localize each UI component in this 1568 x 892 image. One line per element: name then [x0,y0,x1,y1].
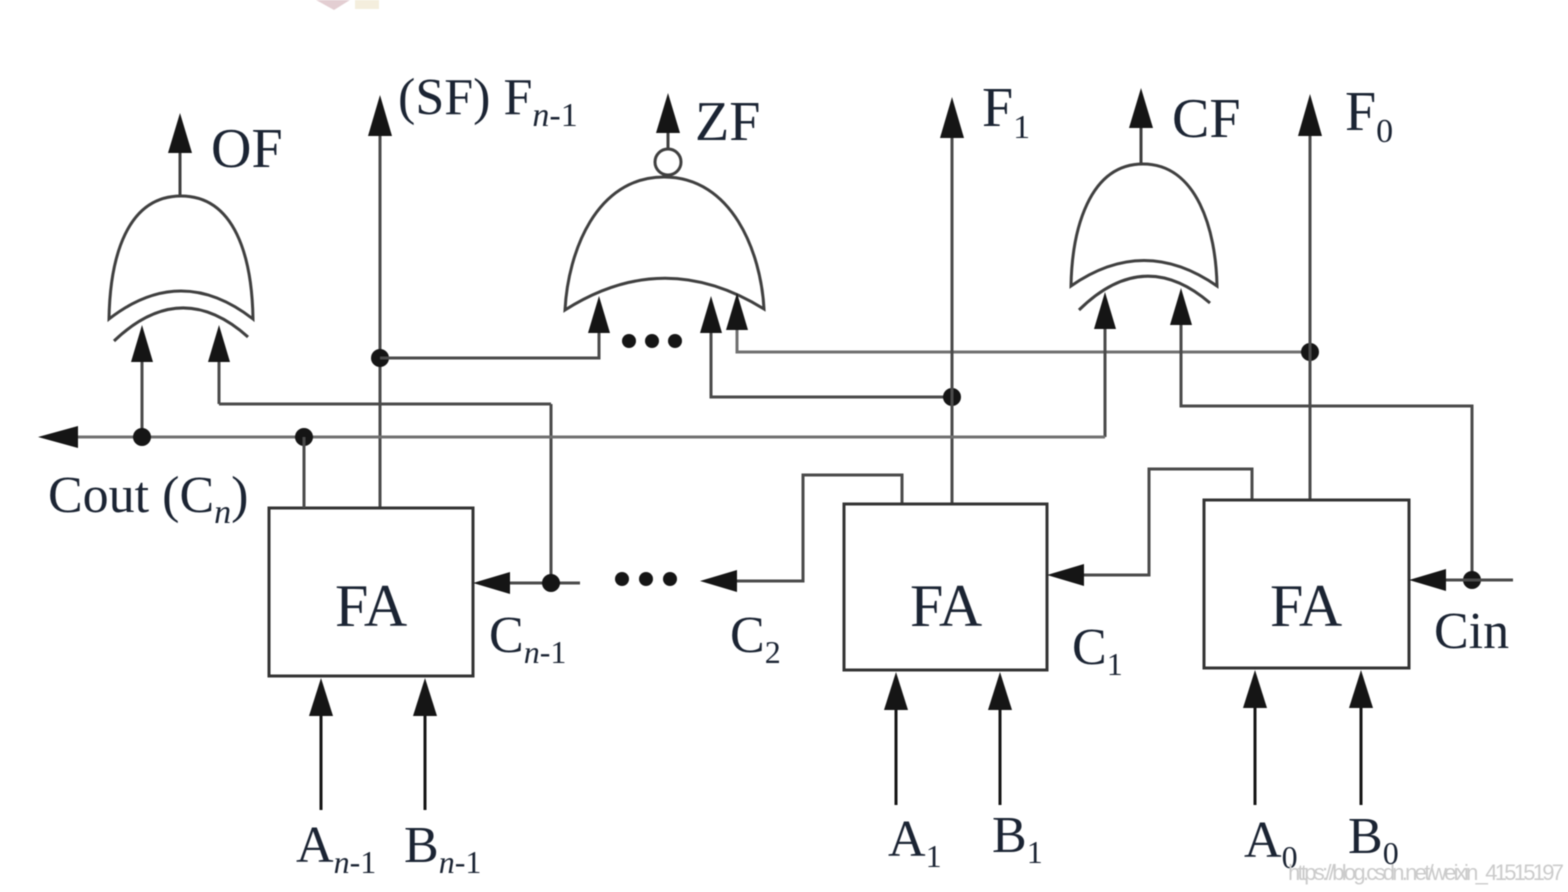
arrowhead CF output [1129,88,1153,128]
svg-text:C2: C2 [730,607,781,670]
wire CF output [1140,125,1143,164]
svg-text:Cin: Cin [1434,603,1509,660]
wire F0 sum output [1309,135,1312,500]
Cout (C_n) bus wire [52,436,1105,439]
junction dot on SF line [371,349,389,367]
wire OF left input from Cout bus [141,352,144,437]
wire carry C1 from FA3 into FA2 [1079,469,1252,575]
svg-text:F0: F0 [1345,81,1393,150]
wire input B1 [999,695,1002,805]
arrowhead ZF output [656,93,680,133]
arrowhead input B1 [988,672,1012,710]
arrowhead SF output [368,95,392,136]
wire ZF output [667,130,670,149]
arrowhead ZF right input [726,293,748,330]
svg-text:A1: A1 [888,811,942,874]
arrowhead input B_n-1 [413,678,437,716]
wire CF right input from Cin [1181,322,1472,580]
wire OF output [179,150,182,196]
arrowhead Cout bus (points left) [38,426,78,448]
arrowhead carry C2 [700,570,737,592]
wire Cin into FA3 [1441,579,1513,582]
svg-text:(SF) Fn-1: (SF) Fn-1 [398,69,578,134]
wire F1 sum output [951,135,954,504]
wire ZF right input from F0 [737,326,1310,352]
wire carry C2 from FA2 [732,475,902,581]
wire SF / F_n-1 sum output [379,133,382,508]
full adder FA3 (bit 0) [1204,500,1409,668]
junction dot Cout / OF input [133,428,151,446]
arrowhead ZF left input [588,296,610,333]
XOR gate U3 (CF) [1071,164,1217,310]
svg-text:ZF: ZF [695,91,760,153]
full adder FA2 (bit 1) [844,504,1047,670]
NOR gate U2 (ZF) [565,177,764,310]
cropped glyph fragment at top edge [316,0,379,10]
junction dot Cout / FA1 carry-out [295,428,313,446]
ellipsis dots ZF inputs [622,334,682,348]
wire input B0 [1360,693,1363,805]
wire input A1 [895,695,898,805]
arrowhead input A1 [884,672,908,710]
svg-text:Bn-1: Bn-1 [404,817,481,880]
full adder FA1 (bit n-1) [269,508,473,676]
junction dot on F1 line [943,388,961,406]
arrowhead CF left input [1094,292,1116,329]
arrowhead carry C1 [1047,564,1084,586]
arrowhead F1 output [940,97,964,138]
arrowhead OF left input [131,325,153,362]
arrowhead Cin [1409,569,1446,591]
arrowhead CF right input [1170,288,1192,325]
wire carry C_n-1 into FA1 [505,582,580,585]
svg-text:OF: OF [211,118,283,180]
wire CF left input from Cout bus [1104,318,1107,437]
svg-text:FA: FA [1270,573,1342,639]
arrowhead OF right input [208,325,230,362]
arrowhead input B0 [1349,670,1373,708]
svg-text:F1: F1 [982,77,1030,146]
junction dot on F0 line [1301,343,1319,361]
svg-text:https://blog.csdn.net/weixin_4: https://blog.csdn.net/weixin_41515197 [1288,860,1564,885]
wire ZF middle input from F1 [711,330,952,397]
junction dot on Cin wire [1463,571,1481,589]
inverter bubble ZF [655,149,681,175]
ellipsis dots carry chain [615,572,677,586]
arrowhead input A0 [1243,670,1267,708]
svg-text:FA: FA [335,573,407,639]
wire SF to ZF left input [380,330,599,358]
svg-text:C1: C1 [1072,619,1123,682]
wire drop to carry C_n-1 junction [550,404,553,583]
svg-text:Cn-1: Cn-1 [489,607,566,670]
svg-text:CF: CF [1172,88,1241,150]
wire input A0 [1254,693,1257,805]
wire OF right input horizontal run to carry C_n-1 [219,403,551,406]
svg-text:Cout (Cn): Cout (Cn) [48,467,248,531]
wire OF right input vertical [218,352,221,404]
arrowhead F0 output [1298,94,1322,136]
svg-text:FA: FA [910,573,982,639]
junction dot carry C_n-1 / OF branch [542,574,560,592]
wire input B_n-1 [424,700,427,810]
XOR gate U1 (OF) [109,196,253,341]
wire FA1 carry-out to Cout bus [303,437,306,508]
arrowhead ZF middle input [700,296,722,333]
arrowhead input A_n-1 [309,678,333,716]
wire input A_n-1 [320,700,323,810]
svg-text:B1: B1 [992,807,1043,870]
arrowhead OF output [168,113,192,153]
arrowhead carry C_n-1 [473,572,510,594]
svg-text:An-1: An-1 [296,817,376,880]
